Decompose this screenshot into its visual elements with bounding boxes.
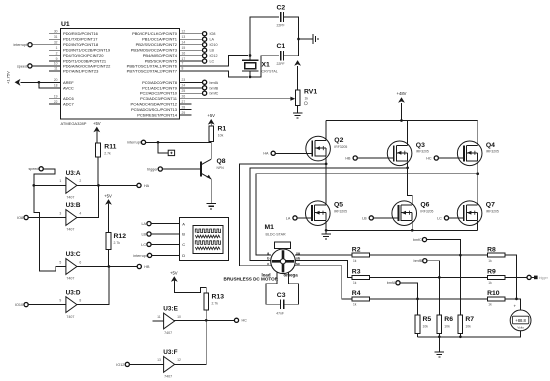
oscilloscope box xyxy=(179,217,228,260)
svg-text:PD1/TXD/PCINT17: PD1/TXD/PCINT17 xyxy=(63,37,98,42)
wire R5 R6 R7 bottoms to rail xyxy=(417,334,419,337)
svg-text:LC: LC xyxy=(210,60,215,64)
resistor R8 1k xyxy=(487,253,505,257)
svg-text:23: 23 xyxy=(182,78,186,82)
svg-text:LC: LC xyxy=(141,243,146,247)
wire phase A to motor pin c xyxy=(239,164,326,266)
wire R11 bottom to HA line xyxy=(97,157,99,186)
svg-text:19: 19 xyxy=(54,95,58,99)
terminal LC to Q7 gate xyxy=(444,216,448,220)
wire U3:B output riser to HA line xyxy=(77,185,99,217)
svg-text:HB: HB xyxy=(345,156,351,160)
svg-text:7407: 7407 xyxy=(66,315,74,319)
svg-text:ADC6: ADC6 xyxy=(63,96,74,101)
U1 left pin stubs PD0-PD7 xyxy=(49,33,61,35)
node source bus Q6 xyxy=(411,229,414,232)
wire R13 bottom to HC line xyxy=(205,310,207,321)
resistor R4 1k xyxy=(352,297,370,301)
svg-text:PB7/TOSC2/XTAL2/PCINT7: PB7/TOSC2/XTAL2/PCINT7 xyxy=(127,68,178,73)
svg-text:IRF3205: IRF3205 xyxy=(334,209,347,213)
node phase B junction xyxy=(406,166,409,169)
svg-text:1: 1 xyxy=(59,179,61,183)
U1 ADC6 ADC7 pins xyxy=(49,98,61,100)
svg-text:LA: LA xyxy=(286,216,291,220)
wire R3 to R9 sense line 2 xyxy=(370,276,488,278)
resistor R2 1k xyxy=(352,253,370,257)
op-amp U3:D 7407 buffer xyxy=(66,297,77,313)
transistor Q7 xyxy=(457,201,482,226)
svg-text:PD4/T0/XCK/PCINT20: PD4/T0/XCK/PCINT20 xyxy=(63,53,104,58)
logic probe box on interrupt net xyxy=(168,150,174,155)
svg-text:+1.75V: +1.75V xyxy=(6,71,11,84)
svg-text:Volts: Volts xyxy=(517,326,524,330)
resistor R3 1k xyxy=(352,275,370,279)
svg-text:C2: C2 xyxy=(277,5,286,12)
svg-text:R5: R5 xyxy=(423,316,432,323)
svg-text:47nF: 47nF xyxy=(276,312,284,316)
capacitor C3 47nF xyxy=(281,299,284,309)
svg-text:4: 4 xyxy=(79,211,81,215)
svg-text:2.7k: 2.7k xyxy=(114,241,121,245)
node HC junction xyxy=(205,319,208,322)
svg-text:PD7/AIN1/PCINT23: PD7/AIN1/PCINT23 xyxy=(63,68,99,73)
svg-text:bmfA: bmfA xyxy=(387,281,396,285)
svg-text:12: 12 xyxy=(182,30,186,34)
svg-text:+48V: +48V xyxy=(397,91,407,96)
node crystal top junction xyxy=(249,54,252,57)
op-amp U3:F 7407 buffer xyxy=(164,357,175,373)
svg-text:R2: R2 xyxy=(352,246,361,253)
wire motor sa to R2 xyxy=(295,254,352,256)
svg-text:25: 25 xyxy=(182,89,186,93)
svg-text:1k: 1k xyxy=(353,259,357,263)
svg-text:Q7: Q7 xyxy=(486,202,495,209)
wire Q3 drain to +48V bus xyxy=(407,121,409,146)
svg-text:R8: R8 xyxy=(487,246,496,253)
terminal LB to scope B xyxy=(147,232,151,236)
wire U3:D output riser to HB line xyxy=(77,267,109,305)
svg-text:10k: 10k xyxy=(423,325,429,329)
svg-text:B: B xyxy=(182,232,185,237)
resistor R9 1k xyxy=(487,275,505,279)
wire crystal top pin xyxy=(250,17,279,60)
svg-text:HC: HC xyxy=(426,156,432,160)
svg-text:+5V: +5V xyxy=(170,270,178,275)
svg-text:22: 22 xyxy=(54,100,58,104)
transistor Q4 xyxy=(457,141,482,166)
terminal IO8 to U3:B input xyxy=(24,215,28,219)
svg-text:R4: R4 xyxy=(352,290,361,297)
wire R8 right down to R10 line xyxy=(505,255,517,299)
terminal bmfC tap xyxy=(422,238,426,242)
svg-text:PB0/ICP1/CLKO/PCINT0: PB0/ICP1/CLKO/PCINT0 xyxy=(132,31,178,36)
wire R2 to R8 sense line 1 xyxy=(370,254,488,256)
wire motor sb to R3 xyxy=(295,260,352,277)
terminal IO12 to U3:F input xyxy=(125,362,129,366)
svg-text:7: 7 xyxy=(182,62,184,66)
svg-text:LA: LA xyxy=(210,38,215,42)
svg-text:U3:E: U3:E xyxy=(163,306,178,313)
ground below bridge xyxy=(325,230,327,234)
svg-text:R12: R12 xyxy=(114,233,127,240)
svg-text:29: 29 xyxy=(182,111,186,115)
svg-text:1k: 1k xyxy=(353,303,357,307)
node R8-R10 junction xyxy=(515,298,518,301)
svg-text:IRF3205: IRF3205 xyxy=(486,150,499,154)
terminal interrupt to scope D xyxy=(148,253,152,257)
resistor R1 10k xyxy=(209,126,214,142)
svg-text:IO8: IO8 xyxy=(17,216,23,220)
svg-text:2: 2 xyxy=(56,52,58,56)
svg-text:C: C xyxy=(182,242,185,247)
wire U1 pin26 PC3 to RV1 wiper xyxy=(180,98,292,100)
ground sideways at crystal caps xyxy=(299,38,313,40)
svg-text:LB: LB xyxy=(210,49,215,53)
ground below rail xyxy=(438,337,440,352)
wire motor sc to R4 xyxy=(295,266,352,299)
terminal HC output xyxy=(234,318,238,322)
U1 AREF AVCC pins xyxy=(49,81,61,83)
svg-text:1k: 1k xyxy=(488,259,492,263)
transistor Q8 NPN xyxy=(200,161,202,176)
node phase C junction xyxy=(476,172,479,175)
svg-text:7407: 7407 xyxy=(164,331,172,335)
svg-text:+5V: +5V xyxy=(104,193,112,198)
svg-text:RV1: RV1 xyxy=(304,89,317,96)
svg-text:X1: X1 xyxy=(262,62,271,69)
node bmfA line3 junction xyxy=(416,298,419,301)
node HB junction xyxy=(108,265,111,268)
power +1.75V left arrow on AREF/AVCC xyxy=(20,81,60,83)
svg-text:AREF: AREF xyxy=(63,80,74,85)
svg-text:R13: R13 xyxy=(212,294,225,301)
crystal X1 xyxy=(242,60,258,71)
svg-text:R10: R10 xyxy=(487,290,500,297)
op-amp U3:C 7407 buffer xyxy=(66,259,77,275)
wire R4 to R10 sense line 3 xyxy=(370,298,488,300)
svg-text:Q3: Q3 xyxy=(416,142,425,149)
terminal IO10 to U3:D input xyxy=(24,303,28,307)
svg-text:HA: HA xyxy=(263,152,269,156)
svg-text:Q2: Q2 xyxy=(334,137,343,144)
svg-text:1: 1 xyxy=(56,46,58,50)
svg-text:10: 10 xyxy=(54,62,58,66)
svg-text:30: 30 xyxy=(54,30,58,34)
wire R9 right to trigger probe xyxy=(505,276,527,278)
svg-text:9: 9 xyxy=(59,298,61,302)
svg-text:10k: 10k xyxy=(465,325,471,329)
wire U3:E output to HC xyxy=(175,319,235,322)
svg-text:IO8: IO8 xyxy=(210,32,216,36)
svg-text:PC6/RESET/PCINT14: PC6/RESET/PCINT14 xyxy=(137,113,178,118)
transistor Q6 xyxy=(392,201,417,226)
node bmfC line1 junction xyxy=(459,254,462,257)
terminal HA output xyxy=(137,183,141,187)
svg-text:PC3/ADC3/PCINT11: PC3/ADC3/PCINT11 xyxy=(140,96,178,101)
svg-text:sc: sc xyxy=(296,262,300,266)
svg-text:2: 2 xyxy=(79,179,81,183)
power +5V arrow above RV1 xyxy=(297,66,299,90)
svg-text:BLDC-STAR: BLDC-STAR xyxy=(266,233,287,237)
svg-text:U3:F: U3:F xyxy=(163,349,177,356)
svg-text:Q6: Q6 xyxy=(420,202,429,209)
op-amp U3:B 7407 buffer xyxy=(66,210,77,226)
svg-text:IO10: IO10 xyxy=(15,303,23,307)
transistor Q5 xyxy=(306,201,331,226)
svg-text:8: 8 xyxy=(79,298,81,302)
wire U1 pin7 to crystal top xyxy=(180,56,248,66)
svg-text:15: 15 xyxy=(182,46,186,50)
op-amp U3:E 7407 buffer xyxy=(164,313,175,329)
terminal LC to scope C xyxy=(147,242,151,246)
svg-text:1k: 1k xyxy=(488,281,492,285)
wire phase B node Q3 source to Q6 drain with jog xyxy=(408,161,413,205)
potentiometer RV1 1k xyxy=(295,90,300,105)
svg-text:interrupt: interrupt xyxy=(127,141,141,145)
wire R12 bottom to HB line xyxy=(108,250,110,267)
svg-text:D: D xyxy=(182,253,185,258)
svg-text:interrupt: interrupt xyxy=(133,254,147,258)
svg-text:24: 24 xyxy=(182,84,186,88)
node AREF-AVCC junction xyxy=(38,81,41,84)
node speed net junction xyxy=(32,184,35,187)
svg-text:IRF3205: IRF3205 xyxy=(486,209,499,213)
power +48V arrow xyxy=(398,97,405,103)
terminal LA to Q5 gate xyxy=(293,216,297,220)
resistor R5 10k xyxy=(415,315,420,334)
wire U3:F output riser to HC line xyxy=(175,320,207,364)
wire voltmeter bottom to rail xyxy=(418,331,521,337)
svg-text:14: 14 xyxy=(182,41,186,45)
svg-text:Q4: Q4 xyxy=(486,142,495,149)
transistor Q2 xyxy=(306,136,331,161)
svg-text:HC: HC xyxy=(242,319,248,323)
ground below Q8 xyxy=(206,204,216,209)
terminal trigger probe xyxy=(527,275,531,279)
svg-text:28: 28 xyxy=(182,105,186,109)
svg-text:C3: C3 xyxy=(277,292,286,299)
svg-text:Q8: Q8 xyxy=(217,158,226,165)
svg-text:IO10: IO10 xyxy=(210,43,218,47)
svg-text:7407: 7407 xyxy=(164,375,172,379)
terminal LB to Q6 gate xyxy=(369,216,373,220)
svg-text:R7: R7 xyxy=(465,316,474,323)
node crystal bottom junction xyxy=(249,76,252,79)
svg-text:c: c xyxy=(267,262,269,266)
terminal speed at U1 PD6 xyxy=(28,64,32,68)
capacitor C2 xyxy=(281,12,284,22)
svg-text:R6: R6 xyxy=(444,316,453,323)
svg-text:10k: 10k xyxy=(218,134,224,138)
wire speed to U3:A input and down to U3:C xyxy=(34,169,55,186)
svg-text:27: 27 xyxy=(182,100,186,104)
wire R10 right to voltmeter top xyxy=(505,299,521,310)
svg-text:BRUSHLESS DC MOTOR: BRUSHLESS DC MOTOR xyxy=(224,276,279,281)
svg-text:U3:C: U3:C xyxy=(66,251,81,258)
svg-text:U3:B: U3:B xyxy=(66,202,81,209)
svg-text:M1: M1 xyxy=(265,224,275,231)
wire bottom source bus xyxy=(325,221,327,230)
svg-text:LB: LB xyxy=(362,216,367,220)
svg-text:trigger: trigger xyxy=(539,276,549,280)
svg-text:PC2/ADC2/PCINT10: PC2/ADC2/PCINT10 xyxy=(140,91,178,96)
svg-text:U3:A: U3:A xyxy=(66,170,81,177)
svg-text:LB: LB xyxy=(141,232,146,236)
svg-text:PC4/ADC4/SDA/PCINT12: PC4/ADC4/SDA/PCINT12 xyxy=(131,102,178,107)
wire RV1 bottom to ground xyxy=(297,106,299,113)
node interrupt junction xyxy=(157,141,160,144)
svg-text:32: 32 xyxy=(54,41,58,45)
svg-text:22PF: 22PF xyxy=(277,62,285,66)
svg-text:NPN: NPN xyxy=(217,166,225,170)
svg-text:PD2/INT0/PCINT18: PD2/INT0/PCINT18 xyxy=(63,42,99,47)
svg-text:16: 16 xyxy=(182,52,186,56)
terminal HC to Q4 gate xyxy=(434,156,438,160)
svg-text:11: 11 xyxy=(157,315,161,319)
svg-text:12: 12 xyxy=(177,358,181,362)
op-amp U3:A 7407 buffer xyxy=(66,178,77,194)
wire interrupt stub to logic probe xyxy=(158,142,168,153)
svg-text:IRF3205: IRF3205 xyxy=(334,145,347,149)
svg-text:PC0/ADC0/PCINT8: PC0/ADC0/PCINT8 xyxy=(142,80,178,85)
resistor R7 10k xyxy=(458,315,463,334)
svg-text:U3:D: U3:D xyxy=(66,289,81,296)
svg-text:bmfB: bmfB xyxy=(413,259,422,263)
wire phase A node Q2 source to Q5 drain xyxy=(325,157,327,206)
svg-text:1k: 1k xyxy=(305,97,309,101)
wire Q4 drain to +48V bus xyxy=(477,121,479,146)
svg-text:IO12: IO12 xyxy=(210,54,218,58)
svg-text:11: 11 xyxy=(54,67,58,71)
svg-text:PD3/INT1/OC2B/PCINT19: PD3/INT1/OC2B/PCINT19 xyxy=(63,48,111,53)
svg-text:7407: 7407 xyxy=(66,277,74,281)
node HA junction xyxy=(97,184,100,187)
resistor R10 1k xyxy=(487,297,505,301)
node bmfB line2 junction xyxy=(438,276,441,279)
resistor R6 10k xyxy=(437,315,442,334)
wire R1 bottom to Q8 collector xyxy=(210,142,212,160)
terminal LA to scope A xyxy=(147,222,151,226)
svg-text:AVCC: AVCC xyxy=(63,85,74,90)
wire C1 right to ground node xyxy=(284,39,299,56)
svg-text:+5V: +5V xyxy=(207,113,215,118)
wire crystal bottom pin to C1 xyxy=(250,56,279,77)
node rail R7 xyxy=(459,335,462,338)
ground below RV1 xyxy=(293,113,303,118)
svg-text:bmfB: bmfB xyxy=(210,86,219,90)
svg-text:ADC7: ADC7 xyxy=(63,102,74,107)
terminal speed at U3:A xyxy=(39,167,43,171)
wire Q8 emitter to ground xyxy=(210,179,212,204)
svg-text:PB4/MISO/PCINT4: PB4/MISO/PCINT4 xyxy=(143,53,178,58)
svg-text:speed: speed xyxy=(17,64,27,68)
svg-text:1k: 1k xyxy=(353,281,357,285)
wire motor load pin to C3 left xyxy=(266,273,280,305)
svg-text:omega: omega xyxy=(284,272,299,277)
svg-text:13: 13 xyxy=(157,358,161,362)
scope waveform traces xyxy=(195,229,221,233)
svg-text:Q5: Q5 xyxy=(334,202,343,209)
svg-text:R3: R3 xyxy=(352,269,361,276)
terminal HA to Q2 gate xyxy=(271,151,275,155)
wire phase C node Q4 source to Q7 drain xyxy=(477,161,479,205)
svg-text:20: 20 xyxy=(54,78,58,82)
svg-text:31: 31 xyxy=(54,35,58,39)
svg-text:1k: 1k xyxy=(488,303,492,307)
svg-text:LC: LC xyxy=(437,216,442,220)
svg-text:ATMEGA328P: ATMEGA328P xyxy=(61,121,87,126)
svg-text:PC5/ADC5/SCL/PCINT13: PC5/ADC5/SCL/PCINT13 xyxy=(131,107,178,112)
terminal interrupt at R1/Q8 xyxy=(141,140,145,144)
node phase A junction xyxy=(325,163,328,166)
wire +48V top bus xyxy=(326,120,478,122)
svg-text:7407: 7407 xyxy=(66,196,74,200)
svg-text:bmfC: bmfC xyxy=(413,238,422,242)
wire C2 right to ground node xyxy=(284,17,299,39)
svg-text:2.7k: 2.7k xyxy=(212,302,219,306)
svg-text:PB2/SS/OC1B/PCINT2: PB2/SS/OC1B/PCINT2 xyxy=(136,42,178,47)
svg-text:26: 26 xyxy=(182,95,186,99)
svg-text:+88.8: +88.8 xyxy=(515,318,526,323)
svg-text:CRYSTAL: CRYSTAL xyxy=(262,70,278,74)
svg-text:IRF3205: IRF3205 xyxy=(420,209,433,213)
svg-text:3: 3 xyxy=(59,211,61,215)
svg-text:U1: U1 xyxy=(61,21,70,28)
transistor Q3 xyxy=(387,141,412,166)
wire U3:C output to HB xyxy=(77,266,137,268)
svg-text:R1: R1 xyxy=(218,126,227,133)
svg-text:8: 8 xyxy=(182,67,184,71)
wire phase B to motor pin b xyxy=(250,168,408,261)
svg-text:13: 13 xyxy=(182,35,186,39)
svg-text:+5V: +5V xyxy=(93,121,101,126)
terminal bmfA tap xyxy=(396,281,400,285)
svg-text:C1: C1 xyxy=(277,43,286,50)
svg-text:2.7k: 2.7k xyxy=(104,152,111,156)
capacitor C1 xyxy=(281,51,284,61)
svg-text:17: 17 xyxy=(182,57,186,61)
U1 ATMEGA328P microcontroller body xyxy=(61,29,180,120)
svg-text:bmfC: bmfC xyxy=(210,92,219,96)
svg-text:PB1/OC1A/PCINT1: PB1/OC1A/PCINT1 xyxy=(142,37,178,42)
wire U3:A output to HA xyxy=(77,184,137,186)
wire motor omega pin to C3 right xyxy=(284,273,298,305)
node source bus left xyxy=(325,229,328,232)
terminal HB output xyxy=(137,264,141,268)
svg-text:interrupt: interrupt xyxy=(13,43,27,47)
svg-text:bmfA: bmfA xyxy=(210,81,219,85)
terminal trigger to Q8 base xyxy=(158,167,162,171)
svg-text:speed: speed xyxy=(28,167,38,171)
node rail R6 xyxy=(438,335,441,338)
svg-text:A: A xyxy=(182,221,185,226)
svg-text:HB: HB xyxy=(144,265,150,269)
node +48V bus junction xyxy=(400,119,403,122)
svg-text:+: + xyxy=(514,304,517,309)
svg-text:IRF3205: IRF3205 xyxy=(416,150,429,154)
wire U1 pin8 to crystal bottom xyxy=(180,71,248,77)
svg-text:6: 6 xyxy=(79,260,81,264)
svg-text:5: 5 xyxy=(59,260,61,264)
svg-text:PD0/RXD/PCINT16: PD0/RXD/PCINT16 xyxy=(63,31,99,36)
svg-text:R9: R9 xyxy=(487,269,496,276)
svg-text:10: 10 xyxy=(177,315,181,319)
terminal interrupt at U1 PD2 xyxy=(28,43,32,47)
svg-text:IO12: IO12 xyxy=(116,363,124,367)
svg-text:HA: HA xyxy=(144,184,150,188)
U3:E floating input stub xyxy=(152,320,163,322)
svg-text:trigger: trigger xyxy=(147,167,158,171)
